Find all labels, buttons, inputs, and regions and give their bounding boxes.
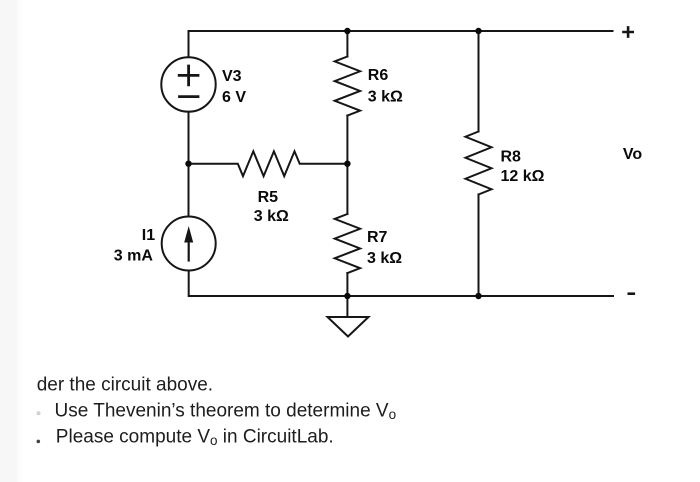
svg-text:R6: R6 xyxy=(368,67,389,84)
svg-text:12 kΩ: 12 kΩ xyxy=(501,168,545,185)
page left edge shading (decorative) xyxy=(0,0,17,482)
node dot: bottom rail / ground xyxy=(344,293,350,299)
svg-text:3 kΩ: 3 kΩ xyxy=(367,250,402,267)
svg-text:Please compute Vo in CircuitLa: Please compute Vo in CircuitLab. xyxy=(56,426,334,448)
svg-text:6 V: 6 V xyxy=(222,89,246,106)
node dot: left rail / R5 xyxy=(185,161,191,167)
svg-text:Vo: Vo xyxy=(623,146,642,163)
svg-text:I1: I1 xyxy=(142,227,155,244)
faint bullet before line 2 xyxy=(37,411,41,415)
node dot: bottom rail / R8 xyxy=(475,293,481,299)
wire V3 minus to I1 top xyxy=(188,112,190,217)
wire R7 bottom to bottom rail xyxy=(346,273,348,296)
node dot: top rail / R8 xyxy=(475,28,481,34)
svg-text:R5: R5 xyxy=(258,189,279,206)
svg-text:R8: R8 xyxy=(501,148,522,165)
wire top rail to R8 top xyxy=(478,31,480,132)
+ terminal marker (top right) xyxy=(624,27,633,36)
svg-text:3 kΩ: 3 kΩ xyxy=(254,208,289,225)
wire middle node to R7 top xyxy=(346,164,348,214)
current source I1 xyxy=(162,217,216,271)
svg-text:Use Thevenin’s theorem to dete: Use Thevenin’s theorem to determine Vo xyxy=(55,401,397,423)
resistor R6 (vertical, 3 kOhm) xyxy=(335,57,360,116)
resistor R8 (vertical, 12 kOhm) xyxy=(466,132,492,195)
wire R8 bottom to bottom rail xyxy=(478,195,480,297)
resistor R7 (vertical, 3 kOhm) xyxy=(335,214,360,273)
wire top rail to R6 top xyxy=(346,31,348,57)
ground symbol xyxy=(328,296,369,337)
svg-text:3 mA: 3 mA xyxy=(114,248,154,265)
svg-text:der the circuit above.: der the circuit above. xyxy=(37,374,213,395)
wire bottom rail (I1- / R7 bottom / R8 bottom to - terminal) xyxy=(189,271,613,297)
resistor R5 (horizontal, 3 kOhm) xyxy=(189,151,348,176)
node dot: top rail / R6 xyxy=(344,28,350,34)
svg-text:R7: R7 xyxy=(367,229,388,246)
svg-text:V3: V3 xyxy=(222,68,242,85)
bullet dot before line 3 xyxy=(37,440,41,444)
node dot: middle R5/R6/R7 xyxy=(344,161,350,167)
svg-text:3 kΩ: 3 kΩ xyxy=(368,89,403,106)
wire top rail (V3+ / R6 top / R8 top to + terminal) xyxy=(189,31,613,57)
voltage source V3 xyxy=(161,57,215,111)
- terminal marker (bottom right) xyxy=(629,292,634,295)
wire R6 bottom to middle node xyxy=(346,116,348,164)
